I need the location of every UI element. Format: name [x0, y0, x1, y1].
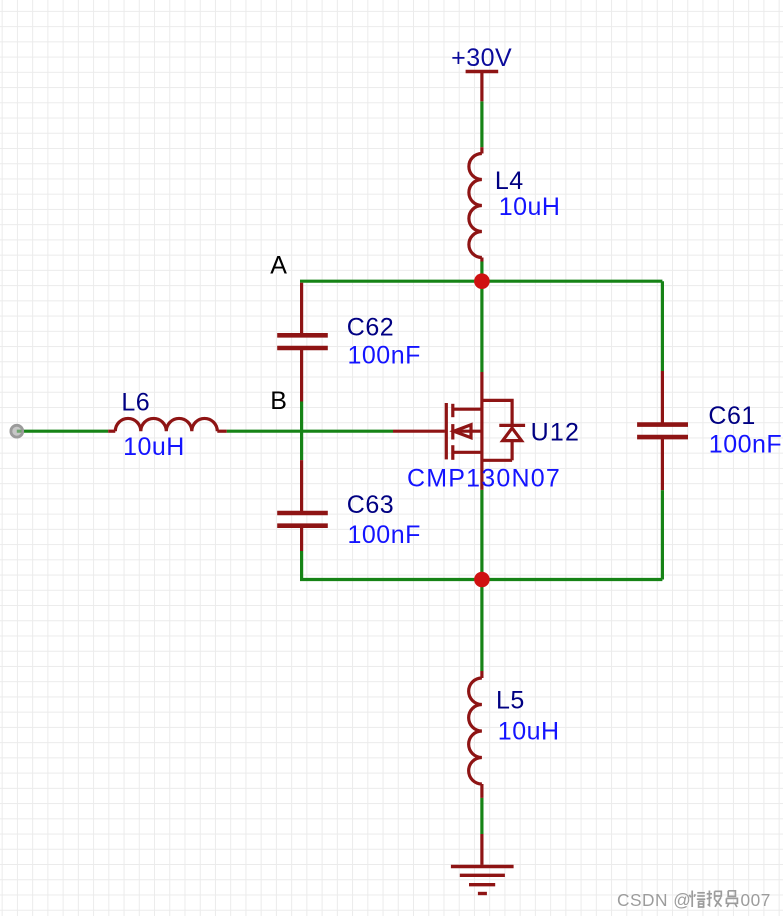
svg-text:B: B — [270, 387, 287, 415]
svg-text:100nF: 100nF — [348, 341, 421, 369]
svg-text:L5: L5 — [496, 686, 525, 714]
svg-text:C62: C62 — [347, 314, 394, 342]
svg-text:C61: C61 — [708, 402, 755, 430]
svg-text:100nF: 100nF — [709, 431, 782, 459]
svg-text:+30V: +30V — [451, 44, 512, 72]
svg-text:L6: L6 — [121, 388, 150, 416]
svg-text:CSDN @: CSDN @ — [617, 890, 691, 910]
svg-text:CMP130N07: CMP130N07 — [407, 464, 561, 492]
svg-text:A: A — [270, 252, 287, 280]
svg-text:U12: U12 — [531, 418, 580, 446]
svg-text:10uH: 10uH — [499, 193, 561, 221]
svg-text:100nF: 100nF — [348, 521, 421, 549]
svg-text:007: 007 — [741, 890, 771, 910]
svg-text:C63: C63 — [347, 491, 394, 519]
svg-text:10uH: 10uH — [123, 433, 185, 461]
svg-text:L4: L4 — [495, 167, 524, 195]
svg-text:10uH: 10uH — [498, 717, 560, 745]
